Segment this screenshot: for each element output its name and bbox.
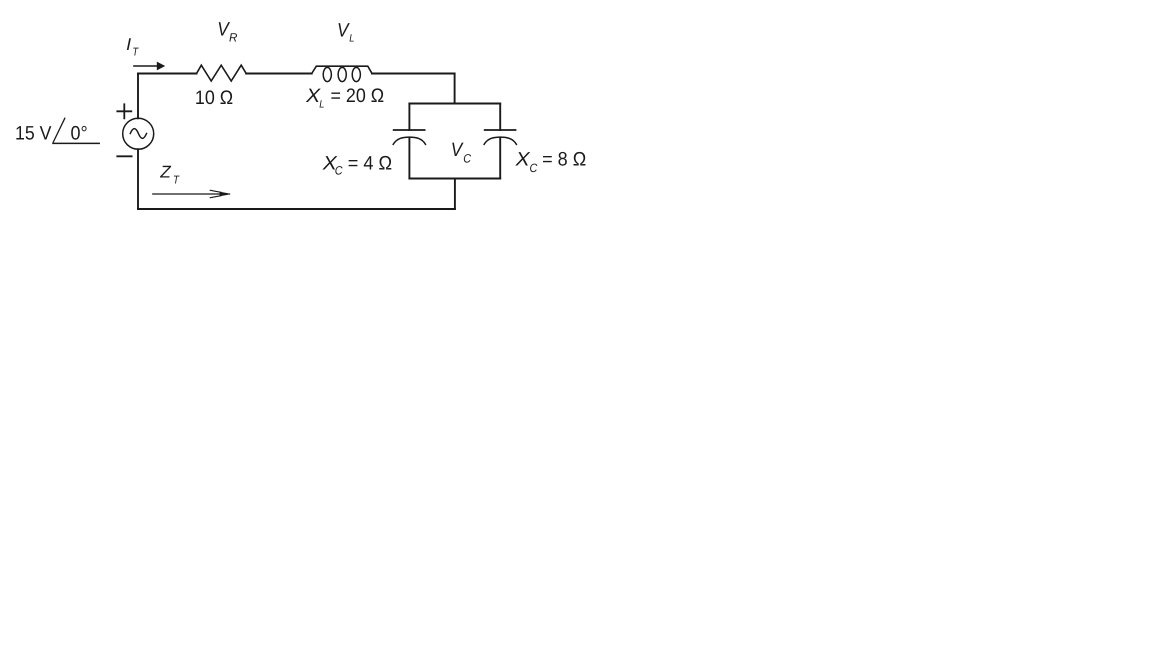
- capacitor box bottom line: [409, 178, 500, 180]
- capacitor C1 curved bottom plate: [393, 137, 425, 144]
- wire exit from box bottom: [454, 179, 456, 210]
- capacitor C2 top plate: [485, 129, 516, 131]
- wire left vertical above source: [137, 74, 139, 119]
- svg-text:= 8 Ω: = 8 Ω: [542, 148, 586, 170]
- ZT impedance arrow line: [153, 193, 230, 195]
- capacitor box top line: [409, 103, 500, 105]
- IT current arrow line: [134, 65, 157, 67]
- ZT arrow upper barb: [210, 190, 221, 192]
- svg-text:V: V: [451, 139, 464, 161]
- angle symbol slash: [53, 118, 65, 142]
- svg-text:X: X: [515, 148, 531, 170]
- svg-text:L: L: [319, 98, 324, 110]
- angle symbol underline: [53, 142, 99, 144]
- wire resistor to inductor: [246, 73, 312, 75]
- capacitor box right upper lead: [499, 104, 501, 131]
- svg-text:V: V: [337, 20, 350, 42]
- svg-text:0°: 0°: [71, 123, 88, 145]
- capacitor box left lower lead: [408, 138, 410, 178]
- inductor loop 2: [338, 67, 346, 81]
- capacitor box right lower lead: [499, 138, 501, 178]
- svg-text:I: I: [126, 35, 131, 54]
- ZT arrow head: [220, 192, 230, 196]
- minus sign: [117, 155, 131, 157]
- svg-text:C: C: [335, 164, 343, 178]
- wire left vertical below source: [137, 149, 139, 209]
- inductor loop 3: [352, 67, 360, 81]
- capacitor box left upper lead: [408, 104, 410, 131]
- svg-text:R: R: [229, 31, 238, 45]
- plus sign: [117, 104, 131, 118]
- capacitor C2 curved bottom plate: [484, 137, 516, 144]
- inductor L (XL=20 ohm) top line: [312, 66, 372, 73]
- svg-text:10 Ω: 10 Ω: [195, 87, 233, 109]
- svg-text:Z: Z: [159, 163, 171, 182]
- AC source sine wave: [130, 129, 146, 139]
- svg-text:= 20 Ω: = 20 Ω: [331, 85, 385, 107]
- svg-text:= 4 Ω: = 4 Ω: [348, 153, 392, 175]
- svg-text:L: L: [349, 33, 354, 45]
- svg-text:T: T: [132, 47, 139, 59]
- svg-text:15 V: 15 V: [15, 123, 52, 145]
- svg-text:T: T: [173, 175, 180, 187]
- AC source V1 circle: [123, 118, 154, 149]
- wire right drop to capacitor box: [454, 74, 456, 104]
- IT arrow head: [157, 62, 165, 71]
- svg-text:C: C: [530, 161, 538, 175]
- inductor loop 1: [323, 67, 331, 81]
- wire bottom horizontal: [138, 208, 455, 210]
- wire inductor to top-right corner: [372, 73, 455, 75]
- ZT arrow lower barb: [210, 196, 221, 198]
- svg-text:C: C: [463, 152, 471, 166]
- wire top-left horizontal: [138, 73, 197, 75]
- resistor R (10 ohm) zigzag: [197, 65, 247, 81]
- capacitor C1 top plate: [394, 129, 425, 131]
